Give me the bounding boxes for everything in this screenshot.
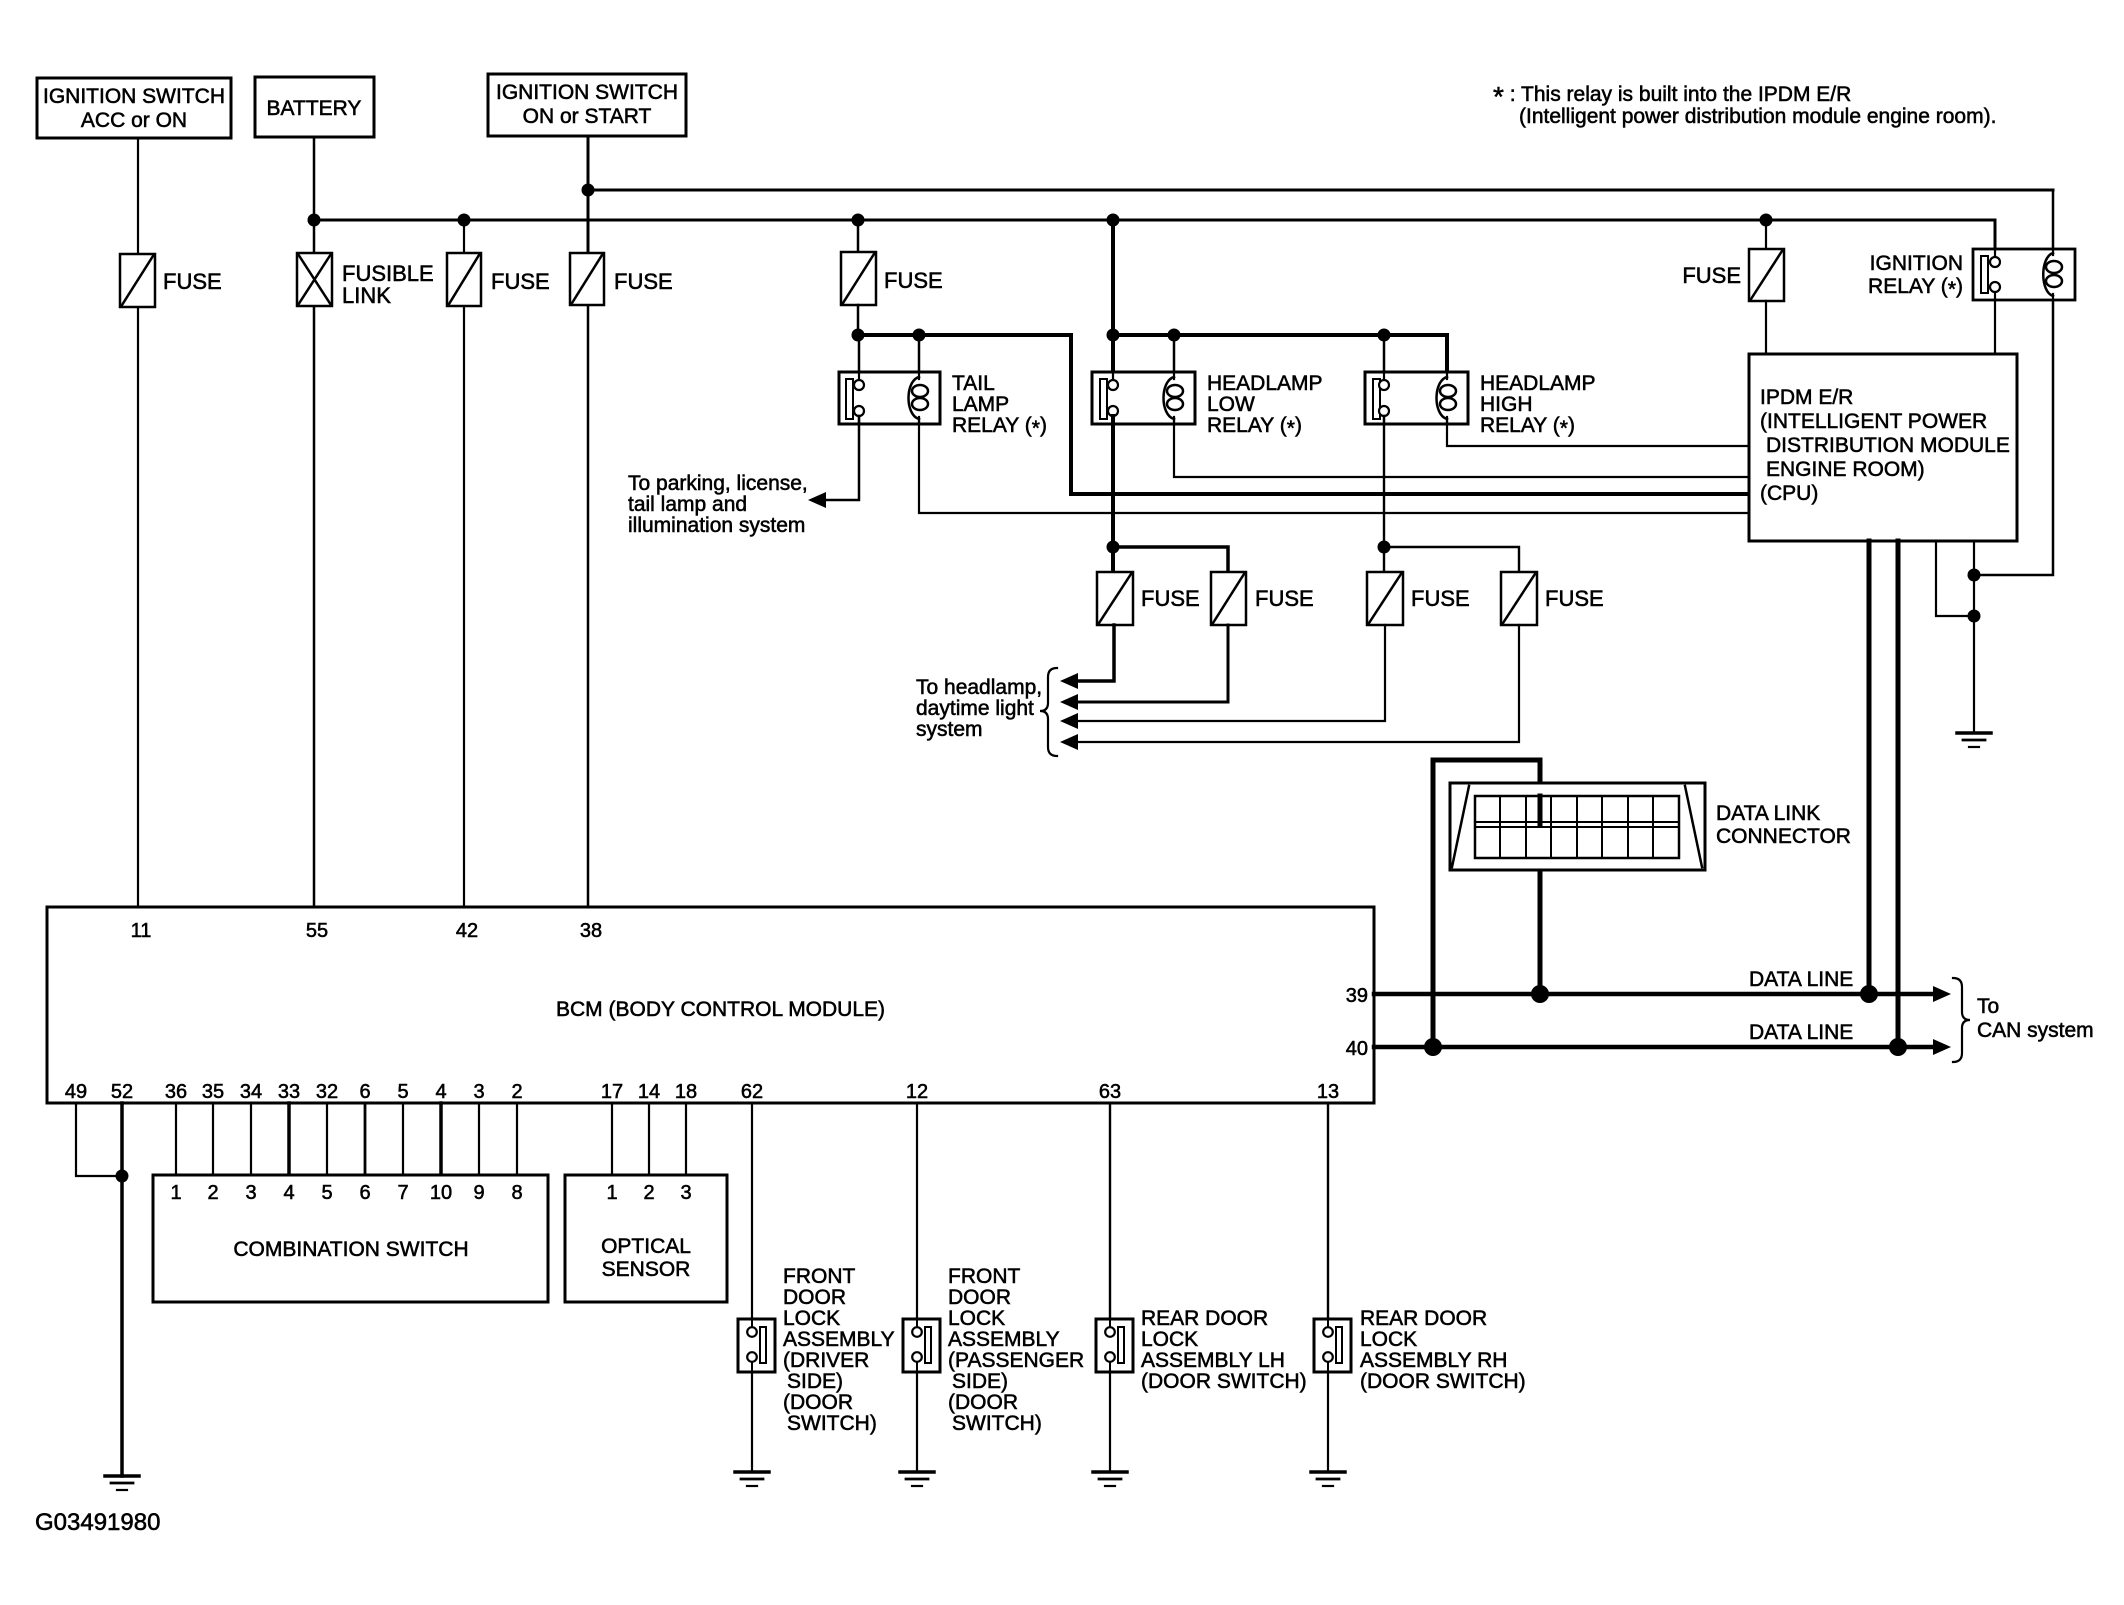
data line 40: [1374, 1045, 1942, 1050]
relay K4 IGNITION RELAY: [1868, 249, 2075, 301]
wire right drop of bus1 to node joint: [1974, 190, 2053, 575]
label front door lock driver: [783, 1265, 895, 1435]
svg-text:LOCK: LOCK: [1141, 1328, 1198, 1351]
wire BCM 62 to door switch: [751, 1103, 753, 1319]
svg-text:DISTRIBUTION MODULE: DISTRIBUTION MODULE: [1766, 434, 2010, 457]
wire headlamp high contact output to fuses: [1383, 416, 1385, 572]
svg-text:ASSEMBLY LH: ASSEMBLY LH: [1141, 1349, 1285, 1372]
data link connector: [1450, 783, 1705, 870]
svg-text:11: 11: [131, 920, 152, 942]
svg-text:62: 62: [741, 1081, 763, 1103]
note: relay built into IPDM E/R: [1493, 81, 1996, 128]
wire door switch rear RH to ground: [1327, 1371, 1329, 1472]
svg-text:LINK: LINK: [342, 283, 391, 308]
node tail coil tap: [913, 329, 926, 342]
svg-text:8: 8: [511, 1182, 522, 1204]
wire fuse FB3 to headlamp arrow 3: [1072, 625, 1385, 721]
svg-text:39: 39: [1346, 985, 1368, 1007]
fuse F6 (IPDM feed): [1682, 249, 1784, 301]
wire headlamp low coil return to IPDM: [1174, 419, 1749, 477]
fuse FB3: [1367, 572, 1470, 625]
svg-text:3: 3: [245, 1182, 256, 1204]
svg-text:DOOR: DOOR: [948, 1286, 1011, 1309]
wire door switch passenger to ground: [916, 1372, 918, 1472]
wire BCM 13 to door switch: [1327, 1103, 1329, 1319]
wire headlamp low relay contact feed from bus2: [1111, 220, 1115, 381]
svg-text:To parking, license,: To parking, license,: [628, 472, 808, 495]
svg-text:tail lamp and: tail lamp and: [628, 493, 747, 516]
wire fuse to BCM pin 11: [137, 307, 139, 907]
svg-text:FRONT: FRONT: [948, 1265, 1020, 1288]
svg-text:FUSE: FUSE: [1682, 263, 1741, 288]
node headlamp low coil tap: [1168, 329, 1181, 342]
wire door switch driver to ground: [751, 1372, 753, 1472]
svg-text:FUSE: FUSE: [1545, 586, 1604, 611]
svg-text:(Intelligent power distributio: (Intelligent power distribution module e…: [1519, 105, 1996, 128]
wire branch to fourth fuse: [1384, 547, 1519, 572]
svg-text:IGNITION SWITCH: IGNITION SWITCH: [43, 85, 225, 108]
svg-text:(DOOR: (DOOR: [783, 1391, 853, 1414]
ground door passenger: [900, 1472, 934, 1486]
svg-text:FRONT: FRONT: [783, 1265, 855, 1288]
svg-text:DATA LINE: DATA LINE: [1749, 968, 1853, 991]
box optical sensor: [565, 1175, 727, 1302]
label to CAN system: [1977, 995, 2094, 1042]
wire headlamp low coil pin up: [1173, 335, 1176, 380]
wire fuse FB2 to headlamp arrow 2: [1072, 625, 1228, 702]
node data40 ipdm: [1889, 1038, 1907, 1056]
relay K1 TAIL LAMP RELAY: [839, 372, 1047, 440]
box IGNITION SWITCH ACC or ON: [37, 78, 231, 138]
svg-text:To headlamp,: To headlamp,: [916, 676, 1042, 699]
box IGNITION SWITCH ON or START: [488, 74, 686, 136]
svg-text:ASSEMBLY: ASSEMBLY: [783, 1328, 895, 1351]
svg-text:FUSE: FUSE: [163, 269, 222, 294]
relay K2 HEADLAMP LOW RELAY: [1092, 372, 1323, 440]
wire branch to second fuse: [1113, 547, 1228, 572]
svg-text:DATA LINE: DATA LINE: [1749, 1021, 1853, 1044]
svg-text:IGNITION SWITCH: IGNITION SWITCH: [496, 81, 678, 104]
svg-text:LOCK: LOCK: [948, 1307, 1005, 1330]
svg-text:LOCK: LOCK: [783, 1307, 840, 1330]
svg-text:HEADLAMP: HEADLAMP: [1207, 372, 1323, 395]
fuse FB4: [1501, 572, 1604, 625]
data link connector hook wire: [1433, 760, 1540, 1047]
arrow headlamp 1: [1060, 673, 1078, 689]
svg-text:52: 52: [111, 1081, 133, 1103]
svg-text:(CPU): (CPU): [1760, 482, 1818, 505]
wire BCM pin 49 down: [76, 1103, 116, 1176]
node data39 ipdm: [1860, 985, 1878, 1003]
wire BCM 4 to comb 10: [439, 1103, 443, 1175]
svg-text:10: 10: [430, 1182, 452, 1204]
fuse F3 (pin 42): [447, 253, 550, 306]
wire IPDM data pin 2 down: [1896, 541, 1901, 1047]
wire BCM 2 to comb 8: [516, 1103, 518, 1175]
wire relay coil bus to headlamp high relay: [1113, 335, 1447, 380]
svg-text:SWITCH): SWITCH): [787, 1412, 877, 1435]
wire tail relay coil pin up: [918, 335, 921, 380]
fuse F1 (ACC): [120, 254, 222, 307]
svg-text:(INTELLIGENT POWER: (INTELLIGENT POWER: [1760, 410, 1987, 433]
svg-text:illumination system: illumination system: [628, 514, 805, 537]
wire IPDM data pin 1 down: [1867, 541, 1872, 994]
wire bus2 tap to fuse 42: [463, 220, 465, 253]
svg-text:SWITCH): SWITCH): [952, 1412, 1042, 1435]
wire headlamp high coil return to IPDM: [1447, 419, 1749, 446]
svg-text:ON or START: ON or START: [523, 105, 652, 128]
node headlamp high contact tap: [1378, 329, 1391, 342]
svg-text:34: 34: [240, 1081, 262, 1103]
node headlamp low fuse branch: [1107, 541, 1120, 554]
fuse F4 (pin 38): [570, 253, 673, 305]
node headlamp low contact tap: [1107, 329, 1120, 342]
svg-text:FUSE: FUSE: [1141, 586, 1200, 611]
svg-text:SIDE): SIDE): [787, 1370, 843, 1393]
wire fuse F5 to node: [857, 305, 860, 335]
svg-text:42: 42: [456, 920, 478, 942]
svg-text:RELAY (*): RELAY (*): [1480, 414, 1575, 440]
svg-text:2: 2: [643, 1182, 654, 1204]
svg-text:7: 7: [397, 1182, 408, 1204]
svg-text:40: 40: [1346, 1038, 1368, 1060]
wire BCM pin 52 to ground: [120, 1103, 124, 1476]
svg-text:32: 32: [316, 1081, 338, 1103]
box IPDM E/R: [1749, 354, 2017, 541]
node joint bus1 drop: [1968, 569, 1981, 582]
svg-text:4: 4: [283, 1182, 294, 1204]
node bus2 fuse42 tap: [458, 214, 471, 227]
node tail fuse output: [852, 329, 865, 342]
svg-text:4: 4: [435, 1081, 446, 1103]
ground door rear LH: [1093, 1472, 1127, 1486]
svg-text:DATA LINK: DATA LINK: [1716, 802, 1820, 825]
label to parking license tail lamp: [628, 472, 808, 537]
node bus2 top right fuse tap: [1760, 214, 1773, 227]
svg-text:TAIL: TAIL: [952, 372, 995, 395]
BCM right pin labels: [1346, 985, 1368, 1060]
node pin49 pin52 join: [116, 1170, 129, 1183]
node bus2 tail fuse tap: [852, 214, 865, 227]
ground BCM pin 52: [105, 1476, 139, 1490]
wire headlamp high contact pin up: [1383, 335, 1386, 381]
svg-text:35: 35: [202, 1081, 224, 1103]
arrow data line 40: [1933, 1039, 1951, 1055]
svg-text:49: 49: [65, 1081, 87, 1103]
wire BCM 14 to optical 2: [648, 1103, 650, 1175]
svg-text:3: 3: [473, 1081, 484, 1103]
ground IPDM: [1957, 733, 1991, 747]
svg-text:ACC or ON: ACC or ON: [81, 109, 187, 132]
svg-text:17: 17: [601, 1081, 623, 1103]
svg-text:IPDM E/R: IPDM E/R: [1760, 386, 1853, 409]
svg-text:13: 13: [1317, 1081, 1339, 1103]
svg-text:HIGH: HIGH: [1480, 393, 1533, 416]
label front door lock passenger: [948, 1265, 1084, 1435]
node data40 dlc: [1424, 1038, 1442, 1056]
svg-text:38: 38: [580, 920, 602, 942]
svg-text:(DOOR: (DOOR: [948, 1391, 1018, 1414]
fuse FB1: [1097, 572, 1200, 625]
wire BCM 32 to comb 5: [326, 1103, 328, 1175]
wire BCM 6 to comb 6: [364, 1103, 367, 1175]
svg-text:9: 9: [473, 1182, 484, 1204]
relay K3 HEADLAMP HIGH RELAY: [1365, 372, 1596, 440]
wire bus2 from battery to ignition relay contact: [314, 220, 1995, 249]
ground door driver: [735, 1472, 769, 1486]
brace to CAN system: [1953, 978, 1970, 1062]
svg-text:DOOR: DOOR: [783, 1286, 846, 1309]
svg-text:1: 1: [606, 1182, 617, 1204]
arrow data line 39: [1933, 986, 1951, 1002]
svg-text:(DOOR SWITCH): (DOOR SWITCH): [1141, 1370, 1307, 1393]
BCM bottom pin labels: [65, 1081, 1339, 1103]
svg-text:HEADLAMP: HEADLAMP: [1480, 372, 1596, 395]
box BATTERY: [255, 77, 374, 137]
svg-text:FUSE: FUSE: [884, 268, 943, 293]
node bus1 ignition tap: [582, 184, 595, 197]
wire fuse to BCM pin 38: [587, 305, 590, 907]
wire IPDM ground pin a: [1936, 541, 1974, 616]
door switch passenger side: [903, 1319, 940, 1372]
label data link connector: [1716, 802, 1851, 848]
svg-text:63: 63: [1099, 1081, 1121, 1103]
svg-text:daytime light: daytime light: [916, 697, 1034, 720]
node bus2 battery tap: [308, 214, 321, 227]
wire BCM 63 to door switch: [1109, 1103, 1111, 1319]
data link connector pin wire down: [1538, 858, 1543, 994]
svg-text:LOW: LOW: [1207, 393, 1255, 416]
fuse F5 (tail lamp relay feed): [841, 252, 943, 305]
arrow headlamp 3: [1060, 713, 1078, 729]
svg-text:LOCK: LOCK: [1360, 1328, 1417, 1351]
wire BCM 12 to door switch: [916, 1103, 918, 1319]
wire fuse FB4 to headlamp arrow 4: [1072, 625, 1519, 742]
svg-text:RELAY (*): RELAY (*): [1868, 275, 1963, 301]
door switch driver side: [738, 1319, 775, 1372]
svg-text:ENGINE ROOM): ENGINE ROOM): [1766, 458, 1925, 481]
svg-text:FUSE: FUSE: [1255, 586, 1314, 611]
label rear door lock LH: [1141, 1307, 1307, 1393]
svg-text:5: 5: [397, 1081, 408, 1103]
label to headlamp daytime light system: [916, 676, 1042, 741]
svg-text:SENSOR: SENSOR: [602, 1258, 691, 1281]
data line 39: [1374, 992, 1942, 997]
wire BCM 36 to comb 1: [175, 1103, 177, 1175]
svg-text:FUSE: FUSE: [614, 269, 673, 294]
wire bus2 tap to top-right fuse: [1765, 220, 1767, 249]
wire door switch rear LH to ground: [1109, 1371, 1111, 1472]
svg-text:OPTICAL: OPTICAL: [601, 1235, 691, 1258]
wire ignition switch ON/START drop to fuse: [587, 136, 590, 253]
wire fuse FB1 to headlamp arrow 1: [1072, 625, 1114, 681]
node data39 dlc: [1531, 985, 1549, 1003]
svg-text:RELAY (*): RELAY (*): [952, 414, 1047, 440]
svg-text:LAMP: LAMP: [952, 393, 1009, 416]
wire tail relay contact output to arrow: [818, 416, 859, 500]
box combination switch: [153, 1175, 548, 1302]
svg-text:12: 12: [906, 1081, 928, 1103]
node joint IPDM ground pins: [1968, 610, 1981, 623]
svg-text:REAR DOOR: REAR DOOR: [1141, 1307, 1268, 1330]
wire battery drop to fusible link: [313, 137, 316, 253]
svg-text:ASSEMBLY: ASSEMBLY: [948, 1328, 1060, 1351]
svg-text:14: 14: [638, 1081, 660, 1103]
wire bus1 from ignition switch ON/START to right side: [588, 189, 2053, 192]
svg-text:18: 18: [675, 1081, 697, 1103]
door switch rear RH: [1314, 1319, 1351, 1372]
node bus2 headlamp relay tap: [1107, 214, 1120, 227]
svg-text:1: 1: [170, 1182, 181, 1204]
svg-text:To: To: [1977, 995, 1999, 1018]
svg-text:5: 5: [321, 1182, 332, 1204]
door switch rear LH: [1096, 1319, 1133, 1372]
wire fuse to BCM pin 42: [463, 306, 465, 907]
svg-text:IGNITION: IGNITION: [1870, 252, 1963, 275]
svg-text:FUSE: FUSE: [491, 269, 550, 294]
svg-text:6: 6: [359, 1182, 370, 1204]
svg-text:33: 33: [278, 1081, 300, 1103]
wire BCM 35 to comb 2: [212, 1103, 214, 1175]
svg-text:(DRIVER: (DRIVER: [783, 1349, 869, 1372]
svg-text:(PASSENGER: (PASSENGER: [948, 1349, 1084, 1372]
wire ignition switch ACC drop to fuse: [137, 138, 139, 254]
svg-text:ASSEMBLY RH: ASSEMBLY RH: [1360, 1349, 1507, 1372]
svg-text:RELAY (*): RELAY (*): [1207, 414, 1302, 440]
arrow headlamp 2: [1060, 694, 1078, 710]
svg-text:CONNECTOR: CONNECTOR: [1716, 825, 1851, 848]
svg-text:SIDE): SIDE): [952, 1370, 1008, 1393]
wire bus2 tap to tail lamp fuse: [857, 220, 860, 252]
wire BCM 3 to comb 9: [478, 1103, 480, 1175]
svg-text:BATTERY: BATTERY: [267, 97, 362, 120]
node headlamp high fuse branch: [1378, 541, 1391, 554]
wire tail relay feed node to IPDM drop: [858, 335, 1749, 494]
wire BCM 5 to comb 7: [402, 1103, 404, 1175]
brace headlamp system: [1040, 668, 1057, 756]
label rear door lock RH: [1360, 1307, 1526, 1393]
wire fusible link to BCM pin 55: [313, 306, 316, 907]
fuse FB2: [1211, 572, 1314, 625]
svg-text:36: 36: [165, 1081, 187, 1103]
svg-text:55: 55: [306, 920, 328, 942]
wire tail relay contact pin up: [858, 335, 861, 381]
wire ignition relay contact to IPDM top: [1994, 300, 1996, 354]
svg-text:CAN system: CAN system: [1977, 1019, 2094, 1042]
ground door rear RH: [1311, 1472, 1345, 1486]
svg-text:system: system: [916, 718, 983, 741]
box BCM body control module: [47, 907, 1374, 1103]
wire BCM 33 to comb 4: [287, 1103, 291, 1175]
svg-text:FUSE: FUSE: [1411, 586, 1470, 611]
wire IPDM ground pin b to ground: [1973, 541, 1975, 733]
svg-text:(DOOR SWITCH): (DOOR SWITCH): [1360, 1370, 1526, 1393]
wire BCM 18 to optical 3: [685, 1103, 687, 1175]
wire BCM 17 to optical 1: [611, 1103, 613, 1175]
wire fuse F6 to IPDM top: [1765, 301, 1767, 354]
wire headlamp low contact output to fuses: [1111, 416, 1115, 572]
BCM top pin labels: [131, 920, 603, 942]
wire BCM 34 to comb 3: [250, 1103, 252, 1175]
arrow to parking system: [808, 492, 826, 508]
svg-text:2: 2: [511, 1081, 522, 1103]
fusible link: [297, 253, 434, 308]
svg-text:3: 3: [680, 1182, 691, 1204]
svg-text:2: 2: [207, 1182, 218, 1204]
arrow headlamp 4: [1060, 734, 1078, 750]
svg-text:REAR DOOR: REAR DOOR: [1360, 1307, 1487, 1330]
svg-text:COMBINATION SWITCH: COMBINATION SWITCH: [233, 1238, 468, 1261]
svg-text:BCM (BODY CONTROL MODULE): BCM (BODY CONTROL MODULE): [556, 998, 885, 1021]
svg-text:6: 6: [359, 1081, 370, 1103]
wire tail relay coil return to IPDM: [919, 419, 1749, 513]
svg-text:G03491980: G03491980: [35, 1509, 160, 1536]
